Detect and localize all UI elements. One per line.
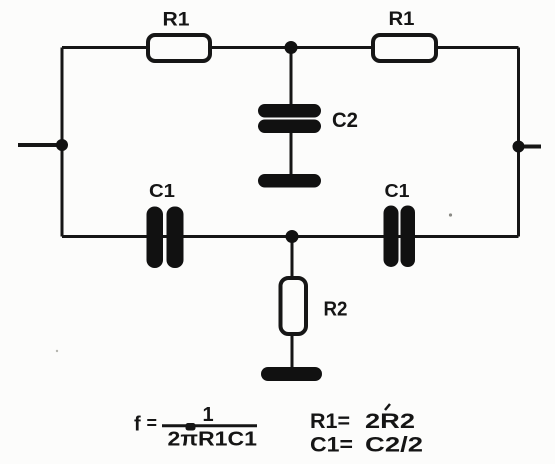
svg-text:R1: R1 bbox=[163, 10, 190, 31]
svg-text:f: f bbox=[134, 414, 141, 436]
svg-text:=: = bbox=[147, 413, 158, 433]
svg-text:C1: C1 bbox=[385, 181, 410, 201]
svg-text:1: 1 bbox=[203, 404, 214, 426]
svg-text:C1: C1 bbox=[149, 181, 175, 201]
svg-text:C2: C2 bbox=[332, 109, 358, 132]
svg-text:2πR1C1: 2πR1C1 bbox=[168, 429, 258, 451]
svg-text:R2: R2 bbox=[324, 299, 348, 321]
svg-text:C1=: C1= bbox=[310, 433, 353, 457]
svg-text:R1: R1 bbox=[389, 9, 415, 30]
svg-text:R1=: R1= bbox=[310, 409, 350, 433]
svg-text:C2/2: C2/2 bbox=[365, 433, 423, 457]
svg-text:2R2: 2R2 bbox=[365, 409, 415, 433]
